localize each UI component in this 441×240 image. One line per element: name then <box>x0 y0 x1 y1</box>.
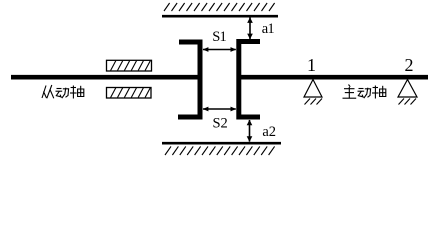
svg-text:S2: S2 <box>213 116 228 132</box>
dimension a2 arrow <box>247 120 253 142</box>
label 主动轴 (driving shaft) <box>343 85 386 99</box>
fixed frame hatching top <box>164 3 275 11</box>
char 主 <box>343 85 357 99</box>
fixed frame line bottom <box>162 142 281 145</box>
bearing block lower (hatched) <box>107 88 152 99</box>
svg-text:2: 2 <box>405 55 414 75</box>
svg-text:S1: S1 <box>212 29 226 45</box>
clutch half left (driven) <box>178 42 200 117</box>
bearing support 2 triangle <box>398 80 417 105</box>
dimension S2 arrow <box>203 107 237 112</box>
driving shaft (right) <box>239 75 428 80</box>
dimension a1 arrow <box>247 17 253 39</box>
char 动 <box>56 88 69 99</box>
driven shaft (left) <box>11 75 200 80</box>
fixed frame hatching bottom <box>165 146 275 155</box>
bearing support 1 triangle <box>304 80 322 105</box>
dimension S1 arrow <box>203 47 237 52</box>
char 轴 <box>372 86 386 99</box>
svg-text:1: 1 <box>307 55 316 75</box>
svg-text:a1: a1 <box>262 21 275 37</box>
char 动 <box>358 88 371 99</box>
char 轴 <box>70 86 84 99</box>
fixed frame line top <box>162 15 278 18</box>
label 从动轴 (driven shaft) <box>42 85 84 99</box>
bearing block upper (hatched) <box>107 60 152 71</box>
svg-text:a2: a2 <box>262 124 276 140</box>
char 从 <box>42 85 54 98</box>
clutch half right (driving) <box>239 42 260 118</box>
